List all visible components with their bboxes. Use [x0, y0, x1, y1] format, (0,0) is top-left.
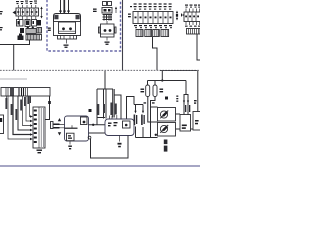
dashed harness enclosure box [47, 0, 121, 51]
junction box J (left, under bus) [1, 88, 50, 97]
wire from strip A down to bus [153, 37, 158, 71]
small box at left edge [0, 115, 4, 134]
strip A left label [128, 14, 131, 18]
pin ticks above K1 row1 [18, 5, 36, 8]
ignition switch S1 upper contact box [158, 108, 176, 122]
ignition coil plug P1 (inside dashed box, left) [54, 0, 81, 48]
C1 label below [37, 150, 43, 154]
R1 inner bottom box [67, 133, 75, 141]
tick and label below [106, 37, 108, 41]
text row below strip A [134, 25, 172, 28]
tiny mark left edge second [0, 27, 3, 30]
K1 row3 relay pad [20, 28, 24, 33]
S1 exit label marks [176, 96, 178, 102]
long wire from R1 lower right to F2 [89, 132, 106, 134]
bowtie symbol between strips [181, 13, 185, 17]
strip A cell pins [135, 17, 172, 19]
connector block K1 (top-left cluster) [13, 1, 43, 41]
ticks below strip B [186, 22, 200, 26]
ticks above strip B [186, 9, 200, 13]
strip A body [133, 12, 173, 24]
wire from strip B down then right [197, 34, 200, 60]
branch from mid drop to F2 top corner [97, 117, 105, 119]
relay R1 (center) [51, 116, 89, 149]
connector block C1 [33, 107, 45, 153]
S1 label below [164, 140, 168, 152]
K1 row1 cells with crosses [16, 8, 39, 16]
main dashed bus line [0, 69, 200, 71]
sensor stack P2 (inside dashed box, right) [99, 2, 117, 45]
R1 coil box [81, 117, 88, 125]
flasher box F2 [105, 119, 134, 147]
wire branch from K1 wire down to bus [13, 45, 15, 71]
pin text above switch area [144, 102, 155, 103]
fuse FB [154, 81, 156, 86]
fuse labels [141, 89, 164, 93]
harness wires from J down with labels, into block C1 [5, 96, 32, 140]
R1 left arrows [58, 118, 61, 121]
P1 ground tick and label [66, 39, 68, 44]
wire band marks [59, 11, 70, 12]
R1 contact bar [65, 127, 78, 129]
tiny mark left edge top [0, 11, 3, 14]
link tick [106, 21, 108, 24]
F2 tick and label "2" [119, 136, 121, 142]
faint stub line left [0, 78, 27, 80]
drops into B3/B4 with arrowheads [183, 71, 198, 115]
loop wire from F2 top to arrow pair [127, 97, 135, 119]
wires from S1 right to B3/B4 [176, 113, 181, 115]
small glyph left of mid drop [89, 109, 92, 112]
wire from R1 right to box F2 [89, 124, 106, 126]
ignition switch S1 lower contact box [158, 123, 176, 137]
fuse strip B [184, 5, 201, 35]
3 lead wires up [61, 0, 69, 14]
rotated labels mid [97, 103, 117, 116]
darker bus segment right [160, 70, 197, 72]
fuse FA [147, 81, 149, 86]
P1 bottom bar [58, 36, 77, 40]
P1 side hatch tabs [54, 15, 58, 19]
partition wire x=122 [122, 0, 124, 70]
K1 row4 plug and hatched box [19, 34, 22, 36]
tick marks above F2 [110, 115, 117, 119]
label left of P2 [93, 9, 97, 13]
dot on S1 bottom edge [155, 134, 157, 136]
small mark left of P1 [48, 28, 51, 31]
text above strip B [185, 5, 200, 8]
load box B4 [193, 112, 202, 131]
link from J to C1 right side [45, 96, 50, 120]
junction dot on that wire [92, 124, 94, 126]
strip B body [184, 12, 201, 22]
bottom link bar under switch [136, 137, 158, 139]
pin ticks below K1 row1 [18, 16, 36, 19]
strip A lower hatched housings [136, 30, 143, 37]
wire from K1 down-left to edge [0, 40, 30, 45]
up-down arrow between strips [176, 12, 178, 20]
small dark blob right [165, 97, 168, 100]
P1 outer shell [54, 14, 81, 22]
fuse strip A [128, 3, 173, 36]
right up-down arrow at K1 [41, 8, 43, 17]
R1 bottom tick and label [69, 141, 71, 145]
fuse pair drop from bus [161, 71, 163, 81]
text below strip B [185, 26, 200, 27]
R1 left terminal cluster [51, 122, 54, 129]
arrow-wire 2 into switch area [142, 105, 144, 113]
small up arrow right of P2 [115, 8, 117, 13]
P1 inner body [59, 22, 76, 34]
tiny text row above K1 [16, 1, 37, 5]
left arrow at K1 [13, 11, 16, 15]
strip B hatch block [187, 29, 201, 35]
K1 row2 small housings [17, 20, 24, 27]
bottom navy rail [0, 165, 200, 167]
load box B3 [180, 115, 191, 132]
hatch rows [103, 15, 113, 20]
connector box [101, 24, 115, 37]
ground U wire under relay [88, 136, 91, 139]
arrow-wire into switch area left [135, 105, 137, 113]
rotated wire number labels [5, 96, 31, 120]
text row above strip A [130, 3, 172, 9]
wire arrowheads into C1 [30, 115, 33, 140]
wire bus T under main bus [104, 71, 106, 89]
